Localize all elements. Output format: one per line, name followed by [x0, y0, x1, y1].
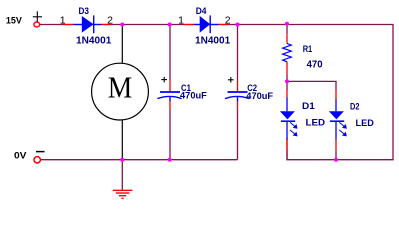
svg-text:R1: R1 [303, 44, 313, 55]
svg-text:15V: 15V [6, 15, 22, 25]
svg-text:0V: 0V [14, 151, 27, 161]
svg-text:470uF: 470uF [246, 91, 273, 101]
svg-text:D3: D3 [79, 6, 90, 16]
svg-text:1N4001: 1N4001 [195, 36, 231, 47]
svg-text:LED: LED [306, 118, 326, 129]
svg-text:1: 1 [178, 15, 184, 27]
svg-text:470: 470 [307, 60, 323, 71]
svg-text:2: 2 [107, 15, 113, 27]
svg-text:1: 1 [60, 15, 66, 27]
svg-text:1N4001: 1N4001 [76, 36, 112, 47]
svg-text:D4: D4 [196, 6, 207, 16]
svg-text:M: M [108, 70, 133, 105]
svg-text:D1: D1 [302, 101, 315, 111]
svg-text:470uF: 470uF [180, 91, 207, 101]
svg-text:D2: D2 [350, 102, 360, 112]
svg-text:LED: LED [356, 118, 374, 129]
svg-text:2: 2 [225, 15, 231, 27]
